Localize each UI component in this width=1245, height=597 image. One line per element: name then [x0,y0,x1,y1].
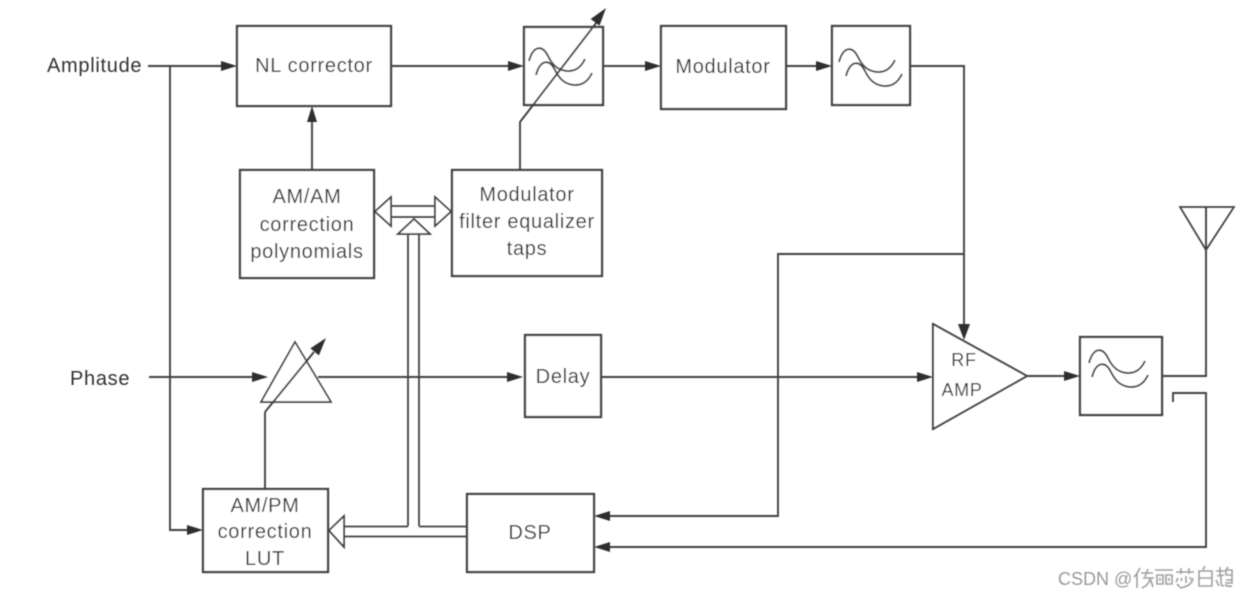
wire: AM/PM LUT to phase shifter control [264,412,266,489]
block: NL corrector [237,26,391,106]
svg-text:DSP: DSP [508,522,551,544]
block: modulator post filter [832,26,910,105]
wire: tunable filter to Modulator [603,61,661,71]
wire: tunability arrow through filter from equalizer taps [520,8,606,170]
node: watermark CJK glyph li [1155,570,1173,584]
svg-text:Phase: Phase [70,368,130,390]
svg-text:LUT: LUT [245,548,285,570]
component: antenna [1180,207,1234,250]
svg-text:AM/PM: AM/PM [230,495,299,517]
svg-text:correction: correction [218,521,313,543]
node: watermark CJK glyph e [1216,567,1232,586]
svg-text:correction: correction [260,214,355,236]
component: variable phase shifter triangle [261,338,331,412]
svg-text:NL corrector: NL corrector [255,55,373,77]
block: AM/AM correction polynomials [240,170,374,278]
wire: open arrow DSP to AM/PM LUT [329,516,467,547]
svg-text:polynomials: polynomials [250,241,363,263]
wire: Delay to RF AMP [601,372,933,382]
wire: directional coupler tap to DSP lower input [594,393,1206,552]
svg-text:Modulator: Modulator [675,56,770,78]
block: Delay [525,335,601,417]
block: Modulator filter equalizer taps [452,170,602,276]
wire: post filter to RF AMP top [910,66,970,340]
wire: phase shifter to Delay [318,372,523,382]
wire: NL corrector to tunable filter [391,61,524,71]
node: watermark CJK glyph yi [1134,566,1232,588]
block: AM/PM correction LUT [203,489,328,572]
block: DSP [467,494,594,572]
node: watermark CJK glyph sha [1176,568,1194,588]
svg-text:filter equalizer: filter equalizer [459,211,595,233]
svg-text:RF: RF [951,350,976,370]
svg-text:AMP: AMP [941,380,982,400]
wire: open arrow up from DSP bus [398,219,430,526]
component: RF AMP triangle [933,324,1027,429]
wire: Modulator to post filter [786,61,832,71]
svg-text:Modulator: Modulator [479,184,574,206]
block: Modulator [661,26,786,109]
svg-text:Delay: Delay [536,366,591,388]
node: watermark CJK glyph bai [1199,566,1212,586]
wire: amplitude branch down to AM/PM LUT [170,66,203,535]
wire: feedback tap to DSP upper input [594,254,964,521]
wire: Phase input line [149,372,268,382]
wire: RF AMP to output filter [1027,371,1080,381]
wire: open double arrow AM/AM to equalizer taps [375,197,451,226]
wire: output filter to antenna feed [1162,207,1206,376]
svg-text:AM/AM: AM/AM [272,186,341,208]
wire: Amplitude input line [148,61,237,71]
wire: AM/AM to NL corrector arrow up [307,106,317,170]
block: output filter [1080,337,1162,415]
svg-text:Amplitude: Amplitude [47,55,142,77]
block: tunable filter [524,27,603,105]
svg-text:CSDN @: CSDN @ [1058,569,1132,589]
svg-text:taps: taps [507,238,548,260]
